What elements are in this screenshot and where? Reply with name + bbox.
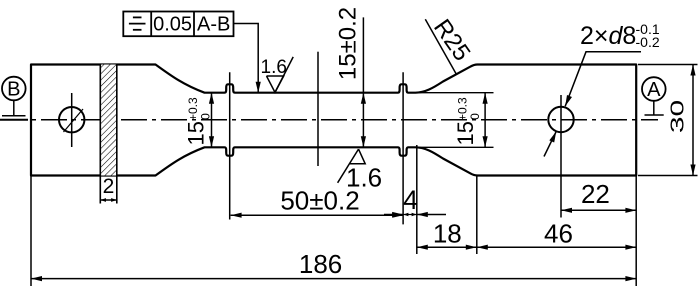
svg-text:18: 18	[433, 219, 462, 249]
dimension 186	[30, 176, 32, 287]
dimension 15+0.3 right	[484, 93, 486, 148]
svg-text:50±0.2: 50±0.2	[280, 186, 359, 216]
svg-text:186: 186	[299, 249, 342, 279]
centerline (horizontal axis, dash-dot)	[1, 119, 658, 121]
dimension 15+0.3 left	[211, 93, 213, 148]
hatched cross-section band	[101, 65, 116, 176]
dimension 50±0.2	[231, 214, 404, 216]
dimension 18	[476, 176, 478, 255]
svg-text:1.6: 1.6	[261, 57, 287, 78]
dimension 22	[561, 209, 636, 211]
svg-text:22: 22	[581, 179, 610, 209]
feature control frame (symmetry 0.05 A-B)	[123, 12, 233, 37]
R25 label and leader	[425, 19, 456, 74]
svg-text:B: B	[7, 79, 20, 101]
center mark line	[317, 52, 319, 166]
svg-text:0.05: 0.05	[153, 14, 192, 36]
svg-text:4: 4	[403, 185, 418, 215]
frame leader	[234, 24, 259, 93]
left hole	[59, 107, 84, 132]
specimen outline	[31, 65, 636, 176]
symmetry symbol	[133, 16, 142, 18]
gauge edge extension lines (thin, under right fillet)	[418, 92, 494, 94]
datum A symbol	[642, 77, 666, 101]
svg-text:15±0.2: 15±0.2	[335, 7, 362, 80]
svg-text:2×d8: 2×d8	[580, 22, 636, 50]
dimension 46	[477, 246, 637, 248]
svg-text:2: 2	[103, 175, 115, 198]
svg-text:46: 46	[544, 219, 573, 249]
svg-text:A: A	[647, 79, 661, 101]
dimension 15±0.2	[362, 17, 364, 147]
right hole	[548, 107, 573, 132]
hole leader	[565, 52, 641, 106]
dimension 4	[416, 145, 418, 254]
svg-text:30: 30	[667, 100, 688, 133]
svg-text:A-B: A-B	[197, 14, 230, 36]
svg-text:-0.2: -0.2	[636, 34, 660, 50]
gauge mark extension lines	[229, 72, 231, 219]
dimension 30	[638, 64, 698, 66]
datum B symbol	[2, 77, 26, 101]
